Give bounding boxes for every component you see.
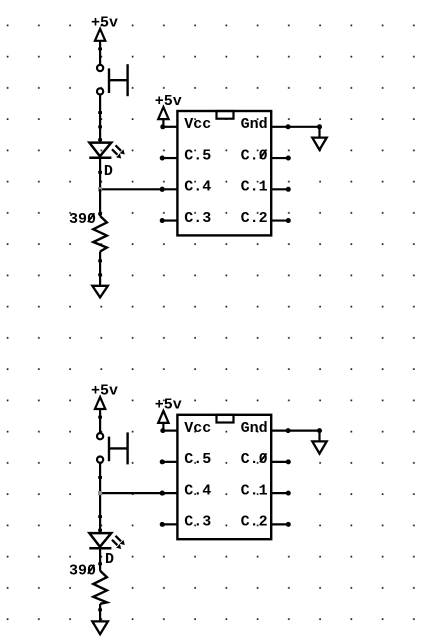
- circuit-2 wire: resistor to ground: [99, 604, 101, 622]
- U1 wire: +5V to Vcc pin: [162, 119, 164, 127]
- U1 pin C.5 wire: [162, 157, 178, 159]
- U1 wire: Gnd pin to ground: [271, 126, 319, 128]
- svg-text:C.5: C.5: [184, 451, 211, 468]
- svg-text:C.5: C.5: [184, 147, 211, 164]
- circuit-2 LED D: [89, 533, 125, 549]
- circuit-2 resistor value 390: [69, 563, 96, 580]
- svg-text:+5v: +5v: [91, 14, 118, 31]
- IC U2 body: [177, 415, 271, 539]
- U1 pin C.2 wire: [271, 219, 288, 221]
- svg-text:+5v: +5v: [155, 93, 182, 110]
- IC U1 body: [177, 111, 271, 235]
- circuit-1 +5V power symbol: [91, 14, 118, 41]
- circuit-1 wire joint markers: [98, 111, 102, 276]
- svg-text:+5v: +5v: [155, 397, 182, 414]
- svg-text:C.4: C.4: [184, 179, 211, 196]
- circuit-2 wire: junction to LED: [99, 493, 101, 533]
- circuit-2 wire: switch to node: [99, 463, 101, 493]
- svg-text:390: 390: [69, 563, 96, 580]
- circuit-1 ground: [92, 286, 108, 298]
- U2 pin C.0 wire: [271, 461, 288, 463]
- circuit-1 junction: [98, 187, 102, 191]
- svg-text:C.0: C.0: [241, 451, 268, 468]
- svg-text:C.0: C.0: [241, 147, 268, 164]
- U2 pin C.1 wire: [271, 492, 288, 494]
- U1 pin label C.0: [241, 147, 268, 164]
- svg-text:+5v: +5v: [91, 383, 118, 400]
- U2 pin C.3 wire: [162, 523, 178, 525]
- svg-text:D: D: [104, 163, 113, 180]
- circuit-1 resistor value 390: [69, 211, 96, 228]
- U2 wire: Gnd pin to ground: [271, 430, 319, 432]
- svg-text:C.2: C.2: [241, 210, 268, 227]
- U2 ground: [312, 441, 326, 453]
- U2 pin C.4 dot: [160, 491, 165, 496]
- U1 pin C.4 dot: [160, 187, 165, 192]
- U2 pin C.5 wire: [162, 461, 178, 463]
- svg-text:C.4: C.4: [184, 482, 211, 499]
- circuit-2 ground: [92, 621, 108, 634]
- U1 pin C.0 wire: [271, 157, 288, 159]
- svg-text:Gnd: Gnd: [241, 420, 268, 437]
- circuit-1 wire: node to C.4 pin (net): [100, 188, 177, 190]
- circuit-1 wire: LED to junction: [99, 158, 101, 190]
- svg-text:C.1: C.1: [241, 179, 268, 196]
- circuit-1 resistor R 390: [99, 189, 101, 216]
- circuit-1 pushbutton switch S: [97, 64, 128, 96]
- U2 pin C.2 wire: [271, 523, 288, 525]
- U1 pin-1 notch: [217, 111, 234, 119]
- svg-text:C.2: C.2: [241, 514, 268, 531]
- svg-text:390: 390: [69, 211, 96, 228]
- svg-text:C.1: C.1: [241, 482, 268, 499]
- U2 pin label C.0: [241, 451, 268, 468]
- U2 wire: +5V to Vcc pin: [162, 423, 164, 431]
- circuit-2 junction: [98, 491, 102, 495]
- U2 pin-1 notch: [217, 415, 234, 423]
- svg-text:Gnd: Gnd: [241, 116, 268, 133]
- circuit-1 wire: +5V to switch: [99, 41, 101, 65]
- svg-text:Vcc: Vcc: [184, 116, 211, 133]
- circuit-2 wire joint markers: [98, 476, 102, 611]
- circuit-2 wire: +5V to switch: [99, 409, 101, 433]
- svg-text:D: D: [105, 551, 114, 568]
- circuit-2 wire: node to C.4 pin (net): [100, 492, 177, 494]
- circuit-1 LED D: [89, 143, 125, 159]
- circuit-1 wire: resistor to ground: [99, 252, 101, 286]
- U2 +5V power symbol: [155, 397, 182, 423]
- svg-text:C.3: C.3: [184, 514, 211, 531]
- circuit-2 pushbutton switch S: [97, 432, 128, 464]
- U1 pin C.3 wire: [162, 219, 178, 221]
- U1 +5V power symbol: [155, 93, 182, 119]
- U1 ground: [312, 138, 326, 150]
- svg-text:Vcc: Vcc: [184, 420, 211, 437]
- svg-text:C.3: C.3: [184, 210, 211, 227]
- circuit-1 wire: switch to node: [99, 95, 101, 142]
- U1 pin C.1 wire: [271, 188, 288, 190]
- circuit-2 resistor R 390: [99, 548, 101, 571]
- circuit-2 +5V power symbol: [91, 383, 118, 410]
